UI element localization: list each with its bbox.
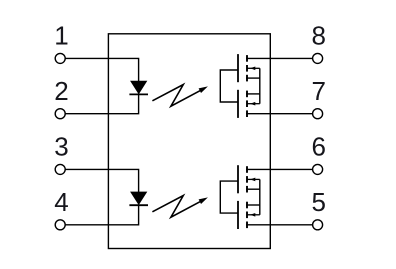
wire LED2 cathode to pin4 [65,205,138,225]
source tap 2 [246,93,260,95]
svg-text:4: 4 [54,187,68,217]
svg-text:1: 1 [54,21,68,51]
pin 2 terminal [55,109,65,119]
svg-text:6: 6 [311,132,325,162]
common source connector U1 [259,68,261,103]
source tap 3 [246,188,260,190]
pin 3 terminal [55,164,65,174]
body tap 1 with arrow [247,67,260,69]
light arrow head channel 1 [199,86,208,93]
body tap 2 with arrow [247,103,260,105]
light arrow channel 1 [152,85,200,107]
source tap 4 [246,204,260,206]
pin 4 terminal [55,220,65,230]
wire drain3 to pin 6 [246,168,313,170]
LED 1 cathode bar [129,93,148,95]
wire pin3 to LED2 anode [65,169,138,192]
svg-text:7: 7 [311,76,325,106]
MOSFET U1 gate-return bracket [220,70,238,102]
MOSFET U1 lower gate bar [237,90,239,118]
MOSFET U1 channel segments [246,55,248,117]
LED 1 (anode triangle) [131,81,147,93]
pin 8 terminal [313,53,323,63]
MOSFET U2 gate-return bracket [220,181,238,213]
svg-text:8: 8 [311,21,325,51]
MOSFET U1 upper gate bar [237,54,239,82]
body tap 4 with arrow [247,214,260,216]
LED 2 cathode bar [129,204,148,206]
wire drain4 to pin 5 [246,224,313,226]
MOSFET U2 lower gate bar [237,201,239,229]
svg-text:2: 2 [54,76,68,106]
pin 7 terminal [313,109,323,119]
MOSFET U2 upper gate bar [237,165,239,193]
common source connector U2 [259,179,261,214]
wire drain1 to pin 8 [246,57,313,59]
pin 5 terminal [313,220,323,230]
svg-text:5: 5 [311,187,325,217]
svg-text:3: 3 [54,132,68,162]
MOSFET U2 channel segments [246,166,248,228]
source tap 1 [246,77,260,79]
body tap 3 with arrow [247,178,260,180]
wire pin1 to LED1 anode [65,58,138,81]
package outline box [108,34,270,249]
wire LED1 cathode to pin2 [65,94,138,113]
light arrow channel 2 [152,196,200,218]
pin 6 terminal [313,164,323,174]
pin 1 terminal [55,53,65,63]
LED 2 (anode triangle) [131,192,147,204]
wire drain2 to pin 7 [246,113,313,115]
light arrow head channel 2 [199,197,208,204]
